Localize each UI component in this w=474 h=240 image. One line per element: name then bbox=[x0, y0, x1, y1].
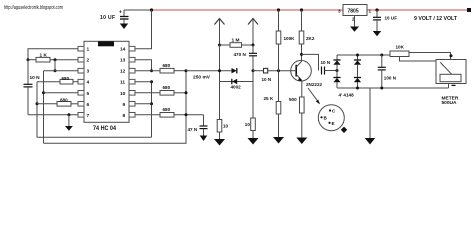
ground C1 bbox=[120, 24, 128, 30]
capacitor C5 10N series bbox=[262, 68, 291, 82]
node pin11 bbox=[150, 80, 153, 83]
node 1M left bbox=[218, 44, 221, 47]
svg-text:10: 10 bbox=[223, 124, 229, 129]
diode D6 4148 bbox=[354, 78, 361, 89]
node pin6 bbox=[36, 102, 39, 105]
node pin2 feedback bbox=[54, 58, 57, 61]
pin stubs U1 left bbox=[78, 46, 84, 117]
node osc A signal bbox=[218, 69, 221, 72]
node 1M right bbox=[252, 44, 255, 47]
svg-text:2: 2 bbox=[87, 58, 90, 64]
capacitor C3 47N bbox=[188, 115, 208, 136]
ground U2 bbox=[350, 27, 359, 32]
svg-text:680: 680 bbox=[163, 85, 171, 90]
wire pin5 row bbox=[44, 92, 79, 94]
wire VCC red rail left segment bbox=[152, 9, 344, 11]
svg-text:10 N: 10 N bbox=[321, 60, 331, 65]
svg-text:25 K: 25 K bbox=[264, 96, 274, 101]
potentiometer R14 10K bbox=[390, 44, 451, 61]
terminal 9V output bbox=[467, 8, 471, 12]
svg-text:2K2: 2K2 bbox=[306, 36, 315, 41]
op IC U1 74HC04 body bbox=[84, 41, 129, 132]
wire signal to cap C5 bbox=[253, 70, 264, 72]
svg-text:10: 10 bbox=[120, 91, 126, 97]
ground pin7 bbox=[65, 115, 73, 131]
svg-text:250 mV: 250 mV bbox=[193, 75, 211, 81]
wire emitter down bbox=[301, 81, 303, 98]
ground R13 bbox=[296, 138, 307, 145]
node pin12 junction bbox=[150, 69, 153, 72]
wire doubler bottom bbox=[337, 87, 449, 89]
wire meter rail bbox=[337, 54, 390, 56]
svg-text:3: 3 bbox=[338, 8, 341, 13]
node base junction bbox=[277, 69, 280, 72]
diode D2 4002 bbox=[231, 79, 242, 90]
wire bus left to pin1 bbox=[28, 49, 78, 60]
svg-text:1 K: 1 K bbox=[40, 52, 48, 58]
svg-text:5: 5 bbox=[87, 91, 90, 97]
svg-text:10 N: 10 N bbox=[30, 75, 41, 81]
ground C3 bbox=[200, 136, 208, 142]
svg-text:7805: 7805 bbox=[348, 9, 359, 15]
ground R8 bbox=[214, 139, 225, 146]
svg-text:6: 6 bbox=[87, 102, 90, 108]
diode D3 4148 bbox=[333, 55, 340, 77]
node diode col2 top bbox=[356, 54, 359, 57]
resistor R9 10 bbox=[245, 118, 256, 138]
svg-text:500UA: 500UA bbox=[442, 100, 457, 106]
svg-text:2N2222: 2N2222 bbox=[306, 82, 323, 87]
wire loop1 bottom bbox=[37, 136, 152, 138]
wire pin9 row bbox=[135, 103, 152, 105]
wire signal row bbox=[186, 70, 232, 72]
wire pin13 to pin12 bbox=[135, 60, 152, 71]
wire pin7 row bbox=[28, 114, 78, 116]
svg-text:13: 13 bbox=[120, 58, 126, 64]
wire net B down bbox=[36, 82, 38, 138]
svg-text:470 N: 470 N bbox=[234, 52, 247, 57]
capacitor C4 470N bbox=[234, 45, 258, 71]
diode D5 4148 bbox=[354, 55, 361, 77]
svg-text:100 N: 100 N bbox=[384, 75, 397, 80]
svg-text:12: 12 bbox=[120, 69, 126, 75]
svg-text:1: 1 bbox=[369, 8, 372, 13]
svg-text:47 N: 47 N bbox=[188, 127, 198, 132]
svg-text:10K: 10K bbox=[396, 44, 405, 49]
resistor R11 25K bbox=[264, 71, 281, 137]
svg-text:E: E bbox=[332, 121, 335, 126]
ground C8 bbox=[373, 31, 381, 36]
wire osc A down bbox=[219, 45, 221, 120]
annotation arrow to pinout bbox=[308, 88, 320, 104]
node pin7 ground bbox=[67, 113, 70, 116]
wire pin2 to pin3 bbox=[54, 60, 56, 71]
svg-text:74 HC 04: 74 HC 04 bbox=[93, 126, 117, 132]
svg-text:14: 14 bbox=[120, 47, 126, 53]
diode D4 4148 bbox=[333, 78, 340, 89]
svg-text:680: 680 bbox=[62, 76, 70, 81]
pinout circle CBE bbox=[318, 105, 347, 133]
ground R11 bbox=[273, 137, 284, 144]
resistor R3 680 bbox=[37, 97, 78, 106]
resistor R5 680 bbox=[135, 85, 186, 95]
svg-text:1: 1 bbox=[87, 47, 90, 53]
capacitor C2 10N bbox=[24, 60, 41, 115]
svg-text:4' 4148: 4' 4148 bbox=[339, 93, 355, 98]
power arrow A bbox=[215, 19, 225, 46]
diode D1 4002 bbox=[232, 68, 237, 73]
node VCC junction bbox=[150, 8, 153, 11]
transistor Q1 2N2222 bbox=[291, 60, 323, 87]
svg-text:10 UF: 10 UF bbox=[100, 15, 115, 21]
svg-text:3: 3 bbox=[87, 69, 90, 75]
wire collector coupling bbox=[302, 54, 319, 70]
node R5 out bbox=[185, 91, 188, 94]
svg-text:9 VOLT / 12 VOLT: 9 VOLT / 12 VOLT bbox=[414, 16, 458, 22]
svg-text:1 M: 1 M bbox=[232, 37, 240, 43]
svg-text:7: 7 bbox=[87, 113, 90, 119]
node osc B signal bbox=[252, 69, 255, 72]
svg-text:500: 500 bbox=[289, 97, 297, 102]
resistor R6 680 bbox=[135, 107, 204, 117]
node doubler bottom col2 bbox=[356, 87, 359, 90]
resistor R8 10 bbox=[217, 120, 228, 140]
svg-text:+: + bbox=[119, 10, 122, 16]
svg-text:680: 680 bbox=[163, 63, 171, 68]
resistor R10 100K bbox=[276, 10, 295, 71]
resistor R7 1M bbox=[220, 37, 254, 47]
node collector bbox=[300, 53, 303, 56]
svg-text:10 N: 10 N bbox=[262, 77, 272, 82]
node rail 100K bbox=[277, 8, 280, 11]
wire VCC to pin14 bbox=[135, 10, 152, 49]
wire C1 feed bbox=[124, 9, 152, 11]
node R4 out bbox=[185, 69, 188, 72]
svg-text:4002: 4002 bbox=[231, 85, 242, 90]
ground doubler bbox=[365, 88, 375, 145]
node pin3 bbox=[54, 69, 57, 72]
wire osc B down bbox=[252, 71, 254, 118]
capacitor C1 10UF bbox=[100, 10, 129, 24]
svg-text:680: 680 bbox=[60, 97, 68, 102]
pin numbers U1 bbox=[87, 47, 126, 119]
capacitor C7 100N bbox=[378, 54, 397, 90]
wire pin11 riser bbox=[151, 82, 153, 138]
power arrow B bbox=[248, 19, 258, 46]
node R1 left bbox=[27, 58, 30, 61]
svg-text:9: 9 bbox=[123, 102, 126, 108]
svg-text:10 UF: 10 UF bbox=[385, 16, 398, 21]
pin stubs U1 right bbox=[129, 46, 135, 117]
node rail 2K2 bbox=[300, 8, 303, 11]
svg-text:10: 10 bbox=[245, 122, 251, 127]
node doubler in bbox=[336, 69, 339, 72]
wire VCC red rail right segment bbox=[367, 9, 468, 11]
node R6 out bbox=[185, 113, 188, 116]
wire net A down bbox=[43, 71, 45, 144]
resistor R1 1K bbox=[28, 52, 78, 62]
wire pin3 row bbox=[44, 70, 79, 72]
svg-text:8: 8 bbox=[123, 113, 126, 119]
meter M1 bbox=[436, 60, 466, 107]
resistor R13 500 bbox=[289, 97, 304, 138]
regulator U2 7805 bbox=[338, 5, 372, 27]
svg-text:11: 11 bbox=[120, 80, 125, 86]
node pin5 bbox=[42, 91, 45, 94]
wire loop2 bottom bbox=[44, 71, 187, 144]
svg-text:4: 4 bbox=[87, 80, 90, 86]
node meter plus bbox=[450, 54, 453, 57]
capacitor C6 10N bbox=[321, 60, 338, 75]
wire pin11 row bbox=[135, 81, 152, 83]
node pin9 bbox=[150, 102, 153, 105]
wire diode row2 bbox=[220, 81, 254, 83]
svg-text:680: 680 bbox=[163, 107, 171, 112]
capacitor C8 10UF bbox=[373, 8, 397, 31]
resistor R2 680 bbox=[37, 76, 78, 84]
resistor R4 680 bbox=[135, 63, 186, 73]
svg-text:100K: 100K bbox=[284, 36, 296, 41]
ground R9 bbox=[248, 138, 259, 145]
svg-text:http://aguselectronik.blogspot: http://aguselectronik.blogspot.com bbox=[4, 5, 63, 11]
resistor R12 2K2 bbox=[299, 10, 315, 61]
